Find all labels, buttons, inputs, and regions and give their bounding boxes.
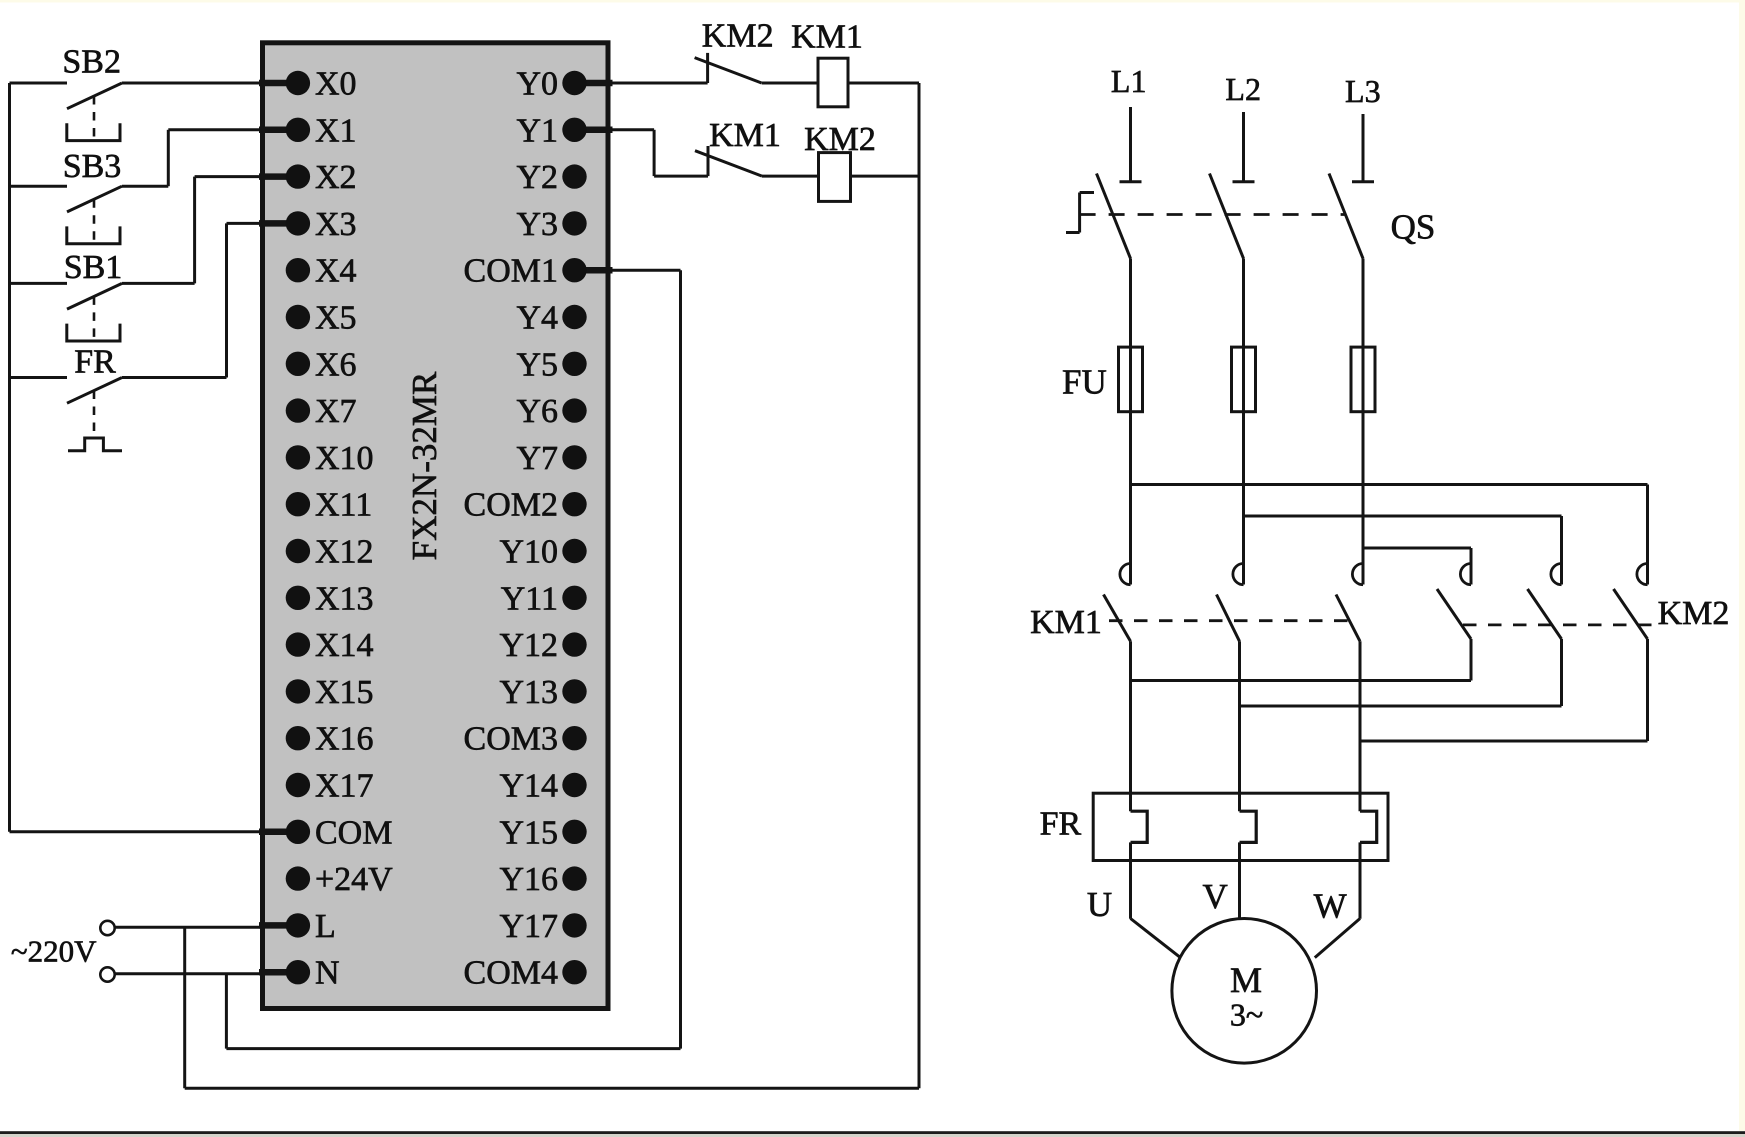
svg-text:KM2: KM2: [702, 18, 774, 55]
svg-text:COM3: COM3: [464, 721, 558, 758]
svg-text:KM2: KM2: [1658, 595, 1730, 632]
svg-text:3~: 3~: [1230, 997, 1263, 1033]
svg-text:Y7: Y7: [516, 440, 558, 477]
svg-text:Y2: Y2: [516, 159, 558, 196]
svg-text:FR: FR: [1040, 806, 1082, 843]
svg-text:X6: X6: [315, 346, 357, 383]
svg-text:L: L: [315, 908, 336, 945]
svg-text:SB1: SB1: [64, 249, 123, 286]
svg-text:Y16: Y16: [499, 861, 558, 898]
svg-text:COM4: COM4: [464, 955, 558, 992]
svg-text:X2: X2: [315, 159, 357, 196]
svg-text:Y13: Y13: [499, 674, 558, 711]
svg-text:Y11: Y11: [501, 580, 558, 617]
svg-text:COM: COM: [315, 814, 392, 851]
svg-text:Y5: Y5: [516, 346, 558, 383]
svg-text:KM1: KM1: [791, 19, 863, 56]
svg-text:KM2: KM2: [804, 121, 876, 158]
svg-text:X0: X0: [315, 66, 357, 103]
svg-text:L2: L2: [1225, 71, 1261, 107]
svg-text:U: U: [1087, 885, 1112, 924]
svg-text:X12: X12: [315, 534, 374, 571]
svg-text:X11: X11: [315, 487, 372, 524]
svg-text:SB2: SB2: [62, 44, 121, 81]
svg-text:KM1: KM1: [709, 117, 781, 154]
svg-text:Y10: Y10: [499, 534, 558, 571]
svg-text:Y1: Y1: [516, 112, 558, 149]
svg-text:X16: X16: [315, 721, 374, 758]
svg-text:FX2N-32MR: FX2N-32MR: [405, 371, 444, 560]
svg-text:KM1: KM1: [1030, 604, 1102, 641]
svg-text:L1: L1: [1111, 63, 1147, 99]
svg-text:X13: X13: [315, 580, 374, 617]
svg-text:COM1: COM1: [464, 253, 558, 290]
svg-text:+24V: +24V: [315, 861, 393, 898]
svg-text:~220V: ~220V: [11, 934, 97, 969]
svg-text:Y3: Y3: [516, 206, 558, 243]
svg-text:X10: X10: [315, 440, 374, 477]
svg-text:Y6: Y6: [516, 393, 558, 430]
svg-text:Y14: Y14: [499, 768, 558, 805]
svg-text:Y17: Y17: [499, 908, 558, 945]
svg-text:L3: L3: [1345, 73, 1381, 109]
svg-text:FR: FR: [74, 344, 116, 381]
svg-text:SB3: SB3: [63, 148, 122, 185]
svg-text:COM2: COM2: [464, 487, 558, 524]
svg-text:FU: FU: [1062, 363, 1107, 402]
svg-text:QS: QS: [1391, 208, 1436, 247]
svg-text:Y12: Y12: [499, 627, 558, 664]
svg-text:X1: X1: [315, 112, 357, 149]
svg-text:N: N: [315, 955, 340, 992]
svg-text:X4: X4: [315, 253, 357, 290]
svg-text:X15: X15: [315, 674, 374, 711]
svg-text:Y15: Y15: [499, 814, 558, 851]
svg-text:Y0: Y0: [516, 66, 558, 103]
svg-text:M: M: [1230, 960, 1262, 1000]
svg-text:Y4: Y4: [516, 300, 558, 337]
svg-text:V: V: [1203, 877, 1228, 916]
svg-text:X5: X5: [315, 300, 357, 337]
svg-text:X14: X14: [315, 627, 374, 664]
svg-text:W: W: [1314, 887, 1347, 926]
svg-text:X7: X7: [315, 393, 357, 430]
svg-text:X17: X17: [315, 768, 374, 805]
svg-text:X3: X3: [315, 206, 357, 243]
